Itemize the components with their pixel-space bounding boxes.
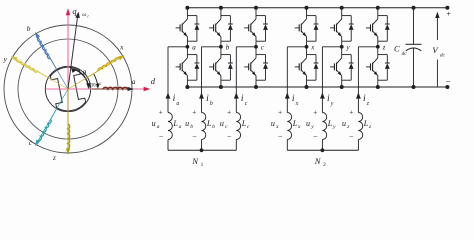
- junction dot capacitor on negative rail: [412, 85, 416, 89]
- leg x: wire upper IGBT to midpoint node: [306, 41, 308, 54]
- V_dc arrowhead: [435, 12, 439, 18]
- neutral bus N2: [287, 149, 358, 151]
- svg-text:z: z: [52, 154, 56, 162]
- inductor L_a coil: [168, 113, 172, 140]
- junction dot positive rail right end: [445, 6, 449, 10]
- rotor axis line: [68, 16, 78, 90]
- midpoint node dot leg b: [219, 45, 223, 49]
- midpoint node dot leg y: [340, 45, 344, 49]
- inductor L_c coil: [236, 113, 240, 140]
- 30 degree angle arc: [94, 74, 98, 87]
- IGBT Tz2 (lower switch, leg z) with antiparallel diode: [366, 55, 390, 81]
- phase x wire inductor to neutral bus: [286, 140, 288, 151]
- leg c: wire upper IGBT to midpoint node: [255, 41, 257, 54]
- junction dot negative rail right end: [445, 85, 449, 89]
- phase x output wire (horizontal from midpoint): [287, 46, 306, 48]
- svg-text:u: u: [342, 119, 346, 128]
- svg-text:c: c: [225, 124, 228, 130]
- machine inner stator circle: [18, 39, 118, 139]
- junction dot leg y on negative rail: [340, 85, 344, 89]
- svg-text:a: a: [192, 44, 196, 52]
- leg b: wire upper IGBT to midpoint node: [220, 41, 222, 54]
- svg-text:b: b: [210, 101, 213, 107]
- svg-text:+: +: [227, 107, 231, 116]
- phase b wire inductor to neutral bus: [201, 140, 203, 151]
- svg-text:a: a: [176, 101, 179, 107]
- svg-text:c: c: [29, 139, 33, 147]
- capacitor C_dc top plate: [406, 43, 422, 45]
- svg-text:a: a: [132, 78, 136, 86]
- svg-text:c: c: [247, 124, 250, 130]
- svg-text:z: z: [366, 101, 370, 107]
- phase b axis arrowhead: [35, 32, 40, 39]
- svg-text:L: L: [363, 119, 369, 128]
- phase x stator coil: [98, 58, 119, 71]
- leg z: wire lower IGBT to negative rail: [377, 80, 379, 87]
- dc bus negative rail: [187, 86, 447, 88]
- phase c axis line: [38, 110, 57, 142]
- svg-text:x: x: [275, 124, 279, 130]
- svg-text:y: y: [3, 56, 8, 64]
- capacitor C_dc curved bottom plate: [406, 48, 421, 51]
- phase z output wire (horizontal from midpoint): [358, 46, 377, 48]
- leg c: wire from positive rail to upper IGBT: [255, 8, 257, 16]
- svg-text:r: r: [87, 13, 89, 18]
- svg-text:L: L: [241, 119, 247, 128]
- V_dc annotation arrow line (lower): [436, 60, 438, 88]
- phase a axis arrowhead: [128, 87, 135, 91]
- phase b inner axis segment: [51, 59, 69, 89]
- current i_a arrowhead: [166, 92, 171, 98]
- junction dot leg a on positive rail: [185, 6, 189, 10]
- svg-text:L: L: [172, 119, 178, 128]
- phase b axis line: [38, 36, 57, 68]
- phase b output wire (horizontal from midpoint): [202, 46, 221, 48]
- svg-text:−: −: [313, 132, 318, 141]
- junction dot phase y on N2: [321, 148, 325, 152]
- phase y output wire (vertical drop): [321, 47, 323, 113]
- current i_c arrowhead: [234, 92, 239, 98]
- midpoint node dot leg a: [186, 45, 190, 49]
- leg z: wire from positive rail to upper IGBT: [377, 8, 379, 16]
- phase b stator coil: [38, 38, 51, 59]
- svg-text:+: +: [192, 107, 196, 116]
- phase x axis line: [89, 58, 121, 77]
- svg-text:y: y: [332, 124, 336, 130]
- svg-text:d: d: [151, 76, 156, 86]
- IGBT Tx2 (lower switch, leg x) with antiparallel diode: [295, 55, 319, 81]
- svg-text:i: i: [363, 93, 366, 104]
- phase z axis line: [67, 113, 69, 150]
- svg-text:+: +: [313, 107, 317, 116]
- svg-text:x: x: [297, 124, 301, 130]
- IGBT Tz1 (upper switch, leg z) with antiparallel diode: [366, 16, 390, 42]
- phase a axis line: [92, 88, 129, 90]
- svg-text:b: b: [212, 124, 215, 130]
- svg-text:−: −: [349, 132, 354, 141]
- salient-pole rotor body: [49, 65, 86, 113]
- svg-text:L: L: [327, 119, 333, 128]
- svg-text:V: V: [432, 45, 439, 55]
- junction dot leg x on positive rail: [305, 6, 309, 10]
- svg-text:u: u: [185, 119, 189, 128]
- capacitor C_dc bottom lead: [413, 48, 415, 87]
- svg-text:x: x: [310, 44, 315, 52]
- svg-text:L: L: [292, 119, 298, 128]
- phase a output wire (horizontal from midpoint): [168, 46, 187, 48]
- svg-text:+: +: [278, 107, 282, 116]
- phase y wire inductor to neutral bus: [321, 140, 323, 151]
- svg-text:2: 2: [323, 162, 326, 168]
- d axis arrowhead: [144, 87, 151, 91]
- svg-text:C: C: [394, 44, 400, 54]
- IGBT Tc1 (upper switch, leg c) with antiparallel diode: [244, 16, 268, 42]
- svg-text:N: N: [314, 156, 322, 166]
- inductor L_y coil: [322, 113, 326, 140]
- theta arc upper arrowhead: [71, 68, 76, 73]
- phase x inner axis segment: [68, 71, 98, 89]
- svg-text:a: a: [179, 124, 182, 130]
- svg-text:i: i: [173, 93, 176, 104]
- IGBT Ty2 (lower switch, leg y) with antiparallel diode: [330, 55, 354, 81]
- 30 degree arc arrowhead: [96, 84, 100, 89]
- svg-text:i: i: [206, 93, 209, 104]
- midpoint node dot leg x: [305, 45, 309, 49]
- svg-text:y: y: [310, 124, 314, 130]
- svg-text:y: y: [330, 101, 334, 107]
- phase x output wire (vertical drop): [286, 47, 288, 113]
- phase a wire inductor to neutral bus: [167, 140, 169, 151]
- leg z: wire upper IGBT to midpoint node: [377, 41, 379, 54]
- current i_b arrowhead: [199, 92, 204, 98]
- current i_z arrowhead: [356, 92, 361, 98]
- rotor axis arrowhead (omega_r): [75, 12, 80, 19]
- svg-text:c: c: [261, 44, 265, 52]
- leg x: wire from positive rail to upper IGBT: [306, 8, 308, 16]
- svg-text:z: z: [346, 124, 350, 130]
- svg-text:L: L: [206, 119, 212, 128]
- svg-text:y: y: [346, 44, 351, 52]
- leg x: wire lower IGBT to negative rail: [306, 80, 308, 87]
- svg-text:ω: ω: [82, 12, 86, 18]
- q axis line: [67, 14, 69, 112]
- IGBT Ta1 (upper switch, leg a) with antiparallel diode: [176, 16, 200, 42]
- phase y axis arrowhead: [11, 56, 18, 61]
- junction dot leg x on negative rail: [305, 85, 309, 89]
- phase x axis arrowhead: [118, 55, 125, 60]
- junction dot leg b on positive rail: [219, 6, 223, 10]
- svg-text:i: i: [327, 93, 330, 104]
- phase z axis arrowhead: [66, 149, 70, 156]
- junction dot leg b on negative rail: [219, 85, 223, 89]
- inductor L_x coil: [287, 113, 291, 140]
- svg-text:x: x: [295, 101, 299, 107]
- phase y inner axis segment: [38, 72, 68, 90]
- junction dot capacitor on positive rail: [412, 6, 416, 10]
- svg-text:q: q: [72, 6, 77, 16]
- phase c axis arrowhead: [35, 140, 40, 147]
- leg a: wire upper IGBT to midpoint node: [186, 41, 188, 54]
- junction dot leg z on negative rail: [376, 85, 380, 89]
- leg b: wire lower IGBT to negative rail: [220, 80, 222, 87]
- IGBT Tc2 (lower switch, leg c) with antiparallel diode: [244, 55, 268, 81]
- phase b output wire (vertical drop): [201, 47, 203, 113]
- leg y: wire upper IGBT to midpoint node: [341, 41, 343, 54]
- svg-text:b: b: [27, 25, 31, 33]
- IGBT Tb1 (upper switch, leg b) with antiparallel diode: [209, 16, 233, 42]
- capacitor C_dc top lead: [413, 8, 415, 45]
- phase z output wire (vertical drop): [357, 47, 359, 113]
- svg-text:i: i: [292, 93, 295, 104]
- svg-text:i: i: [241, 93, 244, 104]
- svg-text:u: u: [306, 119, 310, 128]
- junction dot phase b on N1: [200, 148, 204, 152]
- svg-text:−: −: [446, 77, 451, 87]
- svg-text:c: c: [245, 101, 248, 107]
- svg-text:dc: dc: [402, 51, 408, 57]
- leg c: wire lower IGBT to negative rail: [255, 80, 257, 87]
- V_dc annotation arrow line (upper): [436, 17, 438, 41]
- junction dot leg a on negative rail: [185, 85, 189, 89]
- phase z stator coil: [68, 124, 70, 148]
- svg-text:x: x: [119, 43, 124, 51]
- IGBT Tb2 (lower switch, leg b) with antiparallel diode: [209, 55, 233, 81]
- phase z wire inductor to neutral bus: [357, 140, 359, 151]
- svg-text:u: u: [271, 119, 275, 128]
- junction dot leg c on positive rail: [254, 6, 258, 10]
- midpoint node dot leg c: [254, 45, 258, 49]
- svg-text:−: −: [278, 132, 283, 141]
- rotor surface circle: [45, 66, 90, 111]
- theta arc lower arrowhead: [86, 83, 91, 89]
- phase c output wire (vertical drop): [235, 47, 237, 113]
- current i_x arrowhead: [285, 92, 290, 98]
- neutral bus N1: [168, 149, 236, 151]
- leg y: wire lower IGBT to negative rail: [341, 80, 343, 87]
- midpoint node dot leg z: [376, 45, 380, 49]
- svg-text:b: b: [226, 44, 230, 52]
- junction dot leg y on positive rail: [340, 6, 344, 10]
- machine outer stator circle: [4, 25, 132, 153]
- svg-text:30.0°: 30.0°: [91, 84, 102, 89]
- svg-text:z: z: [368, 124, 372, 130]
- junction dot leg c on negative rail: [254, 85, 258, 89]
- phase c stator coil: [38, 119, 51, 140]
- phase c wire inductor to neutral bus: [235, 140, 237, 151]
- phase z inner axis segment: [67, 89, 69, 124]
- phase c output wire (horizontal from midpoint): [236, 46, 256, 48]
- svg-text:b: b: [190, 124, 193, 130]
- theta angle arc: [72, 69, 88, 88]
- svg-text:−: −: [192, 132, 197, 141]
- phase a output wire (vertical drop): [167, 47, 169, 113]
- svg-text:+: +: [159, 107, 163, 116]
- leg a: wire from positive rail to upper IGBT: [186, 8, 188, 16]
- svg-text:−: −: [159, 132, 164, 141]
- leg a: wire lower IGBT to negative rail: [186, 80, 188, 87]
- svg-text:+: +: [446, 8, 451, 18]
- IGBT Ta2 (lower switch, leg a) with antiparallel diode: [176, 55, 200, 81]
- svg-text:z: z: [382, 44, 386, 52]
- phase a stator coil: [103, 87, 128, 89]
- leg b: wire from positive rail to upper IGBT: [220, 8, 222, 16]
- phase y output wire (horizontal from midpoint): [322, 46, 341, 48]
- leg y: wire from positive rail to upper IGBT: [341, 8, 343, 16]
- dc bus positive rail: [187, 7, 447, 9]
- phase y stator coil: [16, 59, 37, 72]
- svg-text:dc: dc: [440, 53, 446, 59]
- svg-text:N: N: [191, 156, 199, 166]
- svg-text:u: u: [152, 119, 156, 128]
- svg-text:−: −: [227, 132, 232, 141]
- svg-text:+: +: [349, 107, 353, 116]
- junction dot leg z on positive rail: [376, 6, 380, 10]
- phase y axis line: [15, 59, 47, 78]
- svg-text:a: a: [157, 124, 160, 130]
- current i_y arrowhead: [320, 92, 325, 98]
- IGBT Tx1 (upper switch, leg x) with antiparallel diode: [295, 16, 319, 42]
- svg-text:1: 1: [201, 162, 204, 168]
- inductor L_b coil: [202, 113, 206, 140]
- phase c inner axis segment: [51, 89, 69, 119]
- svg-text:u: u: [220, 119, 224, 128]
- inductor L_z coil: [358, 113, 362, 140]
- q axis arrowhead: [66, 8, 70, 15]
- IGBT Ty1 (upper switch, leg y) with antiparallel diode: [330, 16, 354, 42]
- d axis line: [46, 88, 145, 90]
